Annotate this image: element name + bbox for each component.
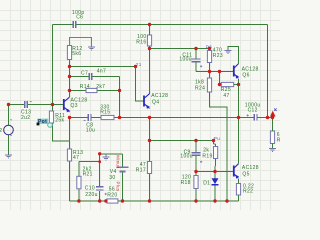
- resistor R26 68 (clipped at edge): [270, 118, 287, 149]
- junction R25 tap: [218, 70, 221, 73]
- junction speaker node: [271, 116, 274, 119]
- svg-text:R14: R14: [80, 84, 90, 90]
- node Pu: [214, 136, 220, 141]
- resistor R13 47: [67, 149, 83, 161]
- transistor Q3 AC128: [64, 97, 88, 112]
- svg-text:AC128: AC128: [242, 165, 259, 171]
- svg-text:R19: R19: [202, 154, 212, 160]
- resistor R19 2k: [202, 147, 217, 160]
- ground at input: [5, 155, 12, 158]
- svg-text:C6: C6: [76, 14, 83, 20]
- wire C9 branch column: [195, 141, 197, 172]
- resistor R11 25k (Pot): [49, 111, 65, 124]
- junction R20 left: [104, 199, 107, 202]
- resistor R18 120: [181, 175, 198, 189]
- wire C7 branch: [70, 77, 120, 91]
- svg-text:Q5: Q5: [242, 171, 249, 177]
- wire bootstrap rail y48: [150, 48, 210, 50]
- svg-text:R21: R21: [83, 172, 93, 178]
- svg-text:R15: R15: [100, 109, 110, 115]
- junction R16 top rail: [148, 23, 151, 26]
- resistor R24 1k8: [195, 78, 212, 92]
- svg-text:C7: C7: [81, 70, 88, 76]
- resistor R15 330: [100, 105, 114, 120]
- svg-text:47: 47: [223, 93, 229, 99]
- node Pot (highlighted label): [37, 119, 53, 128]
- diode D1: [203, 178, 218, 186]
- svg-text:R17: R17: [136, 167, 146, 173]
- junction R19 bottom D1 top: [213, 170, 216, 173]
- input jack X2: [0, 120, 13, 136]
- junction C7R14 join: [118, 89, 121, 92]
- wire Q5 base rail y171: [196, 171, 233, 173]
- ground at Q6 collector loop: [225, 50, 232, 53]
- node 21: [136, 62, 142, 67]
- svg-text:D1: D1: [203, 180, 210, 186]
- transistor Q4 AC128: [144, 93, 168, 109]
- junction R24 return bottom: [225, 199, 228, 202]
- junction node Pu R19 top: [212, 139, 215, 142]
- svg-text:C10: C10: [85, 185, 95, 191]
- junction C9 top: [194, 139, 197, 142]
- svg-text:R18: R18: [181, 180, 191, 186]
- junction Q3 emitter rail: [68, 116, 71, 119]
- svg-text:Q6: Q6: [242, 72, 249, 78]
- junction C9 bottom Q5 base rail: [194, 170, 197, 173]
- ground at battery plus rail: [103, 154, 110, 160]
- junction R15 right rail: [118, 116, 121, 119]
- wire R21 top row: [79, 162, 100, 201]
- wire main emitter rail y117: [70, 117, 273, 119]
- wire Q5 emitter to R22 to bottom: [238, 179, 240, 201]
- svg-text:5k6: 5k6: [72, 51, 81, 57]
- junction R16 bottom: [148, 47, 151, 50]
- junction R23 top: [208, 47, 211, 50]
- wire C11 column: [195, 49, 197, 72]
- resistor R22 0.22: [236, 183, 254, 195]
- junction R25 left: [218, 83, 221, 86]
- svg-text:C12: C12: [248, 108, 258, 114]
- resistor R17 47: [136, 162, 152, 174]
- ground at R12: [88, 47, 95, 50]
- svg-text:10u: 10u: [86, 128, 95, 134]
- svg-text:R23: R23: [213, 53, 223, 59]
- junction C11 top: [194, 47, 197, 50]
- resistor R14 2k7: [80, 84, 106, 93]
- svg-text:R20: R20: [107, 192, 117, 198]
- transistor Q6 AC128: [234, 64, 259, 79]
- svg-text:25k: 25k: [55, 118, 64, 124]
- capacitor C13 2u2: [21, 101, 32, 121]
- resistor R12 5k6 with ground return: [67, 37, 91, 59]
- capacitor C9 100u: [180, 149, 202, 163]
- svg-text:220u: 220u: [85, 192, 98, 198]
- wire R24 pins and bottom jog: [210, 72, 228, 202]
- resistor R20 56: [107, 187, 118, 203]
- capacitor C7 4n7: [81, 68, 106, 79]
- wire R23 pins: [209, 49, 211, 72]
- wire y140 node rail: [150, 140, 214, 142]
- junction Q3 base node: [51, 103, 54, 106]
- wire Q6 base rail y71: [196, 71, 233, 73]
- svg-text:2: 2: [0, 128, 2, 134]
- svg-text:2u2: 2u2: [21, 115, 30, 121]
- wire vertical C7R14 join to rail: [119, 91, 121, 118]
- wire R12 collector node horizontal: [70, 66, 136, 68]
- node P6: [206, 44, 212, 49]
- svg-text:R22: R22: [243, 189, 253, 195]
- wire input node to Q3 base: [9, 104, 64, 106]
- wire right rail down: [267, 25, 269, 118]
- wire Q4 emitter column with R17: [149, 118, 151, 202]
- svg-text:Plus: Plus: [116, 182, 121, 192]
- wire Q6 collector to ground loop: [228, 47, 239, 64]
- resistor R25 47: [221, 82, 234, 99]
- junction C10 top ground rail: [98, 152, 101, 155]
- junction R14 tap: [68, 89, 71, 92]
- wire Q5 collector to rail: [238, 118, 240, 164]
- wire R14 branch: [70, 90, 120, 92]
- junction Q5 collector rail: [237, 116, 240, 119]
- junction output rail: [266, 116, 269, 119]
- wire left column from top rail to Q3 base: [52, 25, 54, 105]
- wire battery bottom column: [122, 172, 124, 201]
- resistor R23 470: [207, 48, 223, 63]
- capacitor C8 10u: [84, 114, 96, 134]
- svg-text:R26: R26: [277, 138, 280, 144]
- capacitor C10 220u: [85, 185, 107, 198]
- svg-text:Q3: Q3: [71, 103, 78, 109]
- junction Q4 emitter rail: [148, 116, 151, 119]
- svg-text:Q4: Q4: [152, 99, 159, 105]
- wire D1 column: [214, 172, 216, 202]
- svg-text:47: 47: [73, 155, 79, 161]
- wire top rail: [53, 24, 268, 26]
- junction R23 R24 divider: [208, 70, 211, 73]
- wire input jack drop: [8, 105, 10, 156]
- battery V4 30: [109, 155, 128, 192]
- wire bottom rail: [70, 200, 239, 202]
- junction R12 bottom: [68, 65, 71, 68]
- svg-text:2k7: 2k7: [96, 84, 105, 90]
- junction node 21: [134, 65, 137, 68]
- resistor R21 2k2: [77, 166, 93, 188]
- transistor Q5 AC128: [234, 164, 259, 179]
- wire R25 row: [220, 72, 239, 85]
- junction C7 tap: [68, 75, 71, 78]
- svg-text:R24: R24: [195, 86, 205, 92]
- junction R18 bottom: [194, 199, 197, 202]
- wire node 21 to Q4 base: [136, 67, 144, 102]
- svg-text:4n7: 4n7: [97, 68, 106, 74]
- svg-text:100u: 100u: [179, 56, 192, 62]
- wire R11 bottom jog to R13 column: [53, 123, 70, 141]
- wire Q3 collector column: [69, 60, 71, 98]
- junction y140 left: [148, 139, 151, 142]
- svg-text:30: 30: [109, 175, 115, 181]
- wire Q4 collector column with R16: [149, 25, 151, 94]
- svg-text:R16: R16: [136, 40, 146, 46]
- junction input node: [7, 103, 10, 106]
- svg-text:100u: 100u: [180, 154, 193, 160]
- junction Q6 emitter R25: [237, 83, 240, 86]
- output terminal arrow A: [270, 108, 277, 116]
- wire R18 column: [195, 172, 197, 202]
- junction R21 C10: [98, 160, 101, 163]
- wire R11 top pin: [52, 105, 54, 112]
- capacitor C6 100p: [72, 10, 85, 28]
- wire R19 branch column: [214, 141, 216, 172]
- junction R21 bottom: [77, 199, 80, 202]
- wire Q6 emitter to rail: [238, 79, 240, 118]
- junction D1 bottom: [213, 199, 216, 202]
- svg-text:Minus: Minus: [116, 155, 121, 169]
- ground at R26: [269, 149, 276, 152]
- resistor R16 100: [136, 34, 151, 46]
- capacitor C11 100u: [179, 52, 202, 67]
- wire R13 column: [69, 118, 71, 202]
- wire C10 column: [99, 154, 101, 201]
- junction R17 bottom: [148, 199, 151, 202]
- svg-text:AC128: AC128: [151, 93, 168, 99]
- capacitor C12 1000u: [245, 102, 261, 120]
- junction battery bottom: [121, 199, 124, 202]
- junction C10 bottom: [98, 199, 101, 202]
- wire battery top from ground node: [100, 154, 123, 167]
